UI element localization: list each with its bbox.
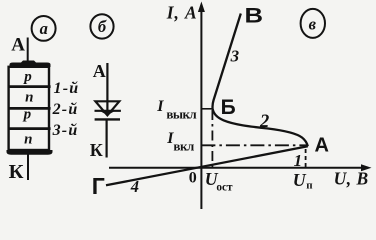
junction J2 divider	[8, 107, 51, 110]
curve: section 2 from A up-left to B knee, section 3 up to V	[213, 14, 308, 147]
svg-text:2-й: 2-й	[52, 101, 79, 118]
p-n-p-n structure box	[9, 67, 49, 150]
dash-dot Ivkl level (axis to point A)	[201, 144, 307, 146]
svg-text:Г: Г	[92, 173, 105, 199]
electrode top cap fig a	[10, 61, 51, 68]
svg-text:К: К	[90, 140, 103, 160]
svg-text:0: 0	[189, 170, 197, 187]
I axis (vertical)	[200, 5, 202, 209]
wire anode fig a	[27, 38, 29, 65]
svg-text:3: 3	[230, 47, 240, 66]
svg-text:2: 2	[259, 112, 269, 132]
svg-text:А: А	[315, 134, 329, 156]
svg-text:U: U	[293, 170, 307, 190]
svg-text:п: п	[306, 180, 313, 192]
U axis (horizontal)	[109, 167, 368, 169]
U axis arrowhead	[361, 164, 372, 171]
wire anode fig b	[106, 63, 108, 114]
svg-text:3-й: 3-й	[52, 122, 79, 139]
svg-text:в: в	[309, 15, 317, 34]
svg-text:U, В: U, В	[334, 169, 369, 189]
svg-text:выкл: выкл	[166, 107, 196, 122]
dinistor crossbar	[95, 110, 121, 112]
electrode bottom cap fig a	[7, 150, 53, 155]
svg-text:А: А	[93, 61, 106, 81]
svg-text:4: 4	[130, 177, 139, 196]
svg-text:А: А	[11, 35, 25, 56]
point label V (Ve)	[245, 3, 263, 26]
svg-text:б: б	[98, 17, 107, 36]
svg-text:а: а	[40, 19, 48, 38]
svg-text:ост: ост	[216, 181, 233, 193]
figure marker (b) circle	[90, 14, 113, 38]
tick Ivykl (axis to point B)	[201, 108, 212, 110]
dinistor cathode bar	[95, 118, 120, 120]
wire cathode fig a	[27, 154, 29, 180]
svg-text:p: p	[22, 69, 32, 85]
figure marker (v) circle	[301, 9, 325, 38]
dinistor inner fill below crossbar	[100, 111, 116, 116]
svg-text:n: n	[24, 131, 32, 147]
dinistor VD triangle	[95, 101, 119, 115]
wire cathode fig b	[105, 119, 107, 158]
figure marker (a) circle	[32, 16, 56, 41]
svg-text:I, А: I, А	[166, 3, 198, 23]
svg-text:К: К	[9, 161, 24, 183]
load line: section 4 (G) through origin to point A (section 1)	[106, 146, 308, 185]
svg-text:n: n	[25, 89, 33, 105]
dashed vertical at Up (from A down to axis)	[305, 149, 307, 167]
svg-text:1-й: 1-й	[54, 80, 80, 97]
svg-text:I: I	[156, 98, 164, 115]
svg-text:Б: Б	[221, 96, 236, 119]
svg-text:вкл: вкл	[173, 138, 194, 153]
junction J3 divider	[8, 127, 51, 130]
svg-text:1: 1	[294, 151, 303, 170]
junction J1 divider	[8, 85, 51, 88]
svg-text:p: p	[22, 107, 32, 123]
dash-dot vertical at Uost (from B down to axis)	[211, 110, 213, 168]
I axis arrowhead	[198, 2, 205, 13]
svg-text:В: В	[245, 3, 263, 26]
